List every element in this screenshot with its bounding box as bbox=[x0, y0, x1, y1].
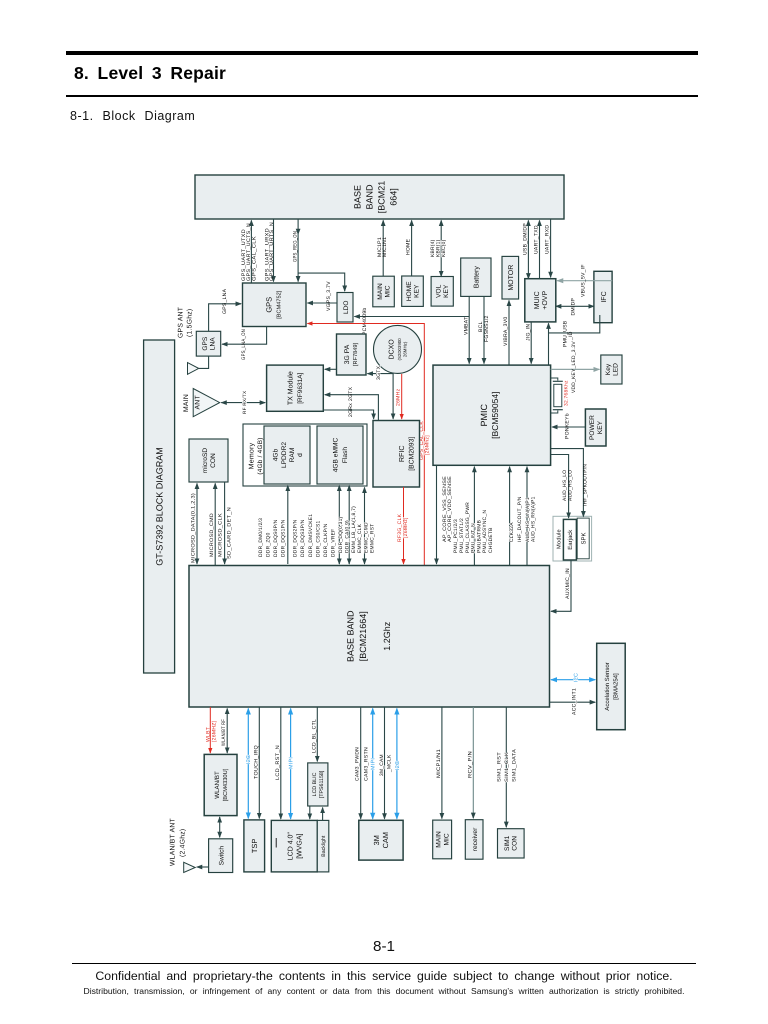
svg-text:PMU_ADSYNC_N: PMU_ADSYNC_N bbox=[482, 510, 488, 553]
subheading 8-1. Block Diagram bbox=[70, 109, 195, 123]
svg-text:JIG_IN: JIG_IN bbox=[525, 324, 531, 341]
svg-text:PCM4009b: PCM4009b bbox=[362, 308, 368, 335]
svg-text:[26Mhz]: [26Mhz] bbox=[425, 435, 431, 455]
svg-text:WLAN/BT: WLAN/BT bbox=[214, 771, 221, 799]
svg-text:RFIC: RFIC bbox=[397, 445, 406, 462]
svg-text:Key: Key bbox=[605, 363, 612, 375]
block GPS LNA bbox=[196, 331, 220, 356]
wire PCM4009b (LDO input from VBAT) bbox=[354, 316, 469, 318]
wire MICROSD_CMD/CLK bbox=[214, 483, 216, 565]
wire GPS_REG_ON bbox=[297, 219, 299, 281]
wire LDO enable branch bbox=[298, 273, 345, 291]
svg-text:Memory: Memory bbox=[249, 442, 256, 469]
svg-text:DDR_DQS1P/N: DDR_DQS1P/N bbox=[281, 519, 287, 557]
heading 8. Level 3 Repair bbox=[74, 63, 226, 84]
wire GPS_CAL_CLK 26MHz (red) bbox=[307, 324, 424, 566]
svg-text:Earjack: Earjack bbox=[567, 529, 574, 550]
block RFIC [BCM2093] bbox=[373, 421, 420, 488]
svg-text:(1.5Ghz): (1.5Ghz) bbox=[187, 309, 194, 337]
block receiver bbox=[465, 820, 483, 860]
svg-text:VMBAT: VMBAT bbox=[463, 317, 469, 335]
svg-text:26MHz): 26MHz) bbox=[403, 341, 408, 357]
block Battery bbox=[461, 258, 491, 296]
svg-text:GPS_LNA: GPS_LNA bbox=[222, 288, 228, 314]
svg-text:microSD: microSD bbox=[202, 448, 209, 474]
wire MICP1/N1 bbox=[441, 707, 443, 819]
wire MIPI LCD (blue) bbox=[290, 709, 292, 819]
block MUIC +OVP bbox=[525, 279, 556, 322]
wire UART_TXD bbox=[539, 220, 541, 278]
svg-text:+OVP: +OVP bbox=[542, 291, 549, 310]
svg-text:4Gb: 4Gb bbox=[273, 448, 280, 461]
svg-text:WLAN/BT ANT: WLAN/BT ANT bbox=[170, 818, 177, 866]
svg-text:LPDDR2: LPDDR2 bbox=[281, 442, 288, 468]
svg-text:CAM3_RSTN: CAM3_RSTN bbox=[364, 747, 370, 781]
wire WLAN/BT RF bbox=[226, 709, 228, 753]
svg-text:2GTX: 2GTX bbox=[348, 386, 354, 401]
svg-text:IHF_DACOUT_P/N: IHF_DACOUT_P/N bbox=[517, 496, 523, 542]
svg-text:DDR_ZQ0: DDR_ZQ0 bbox=[266, 532, 272, 557]
wire VBUS_5V_IF (gray) bbox=[557, 280, 612, 282]
svg-text:KEY: KEY bbox=[443, 284, 450, 298]
svg-text:(4Gb / 4GB): (4Gb / 4GB) bbox=[257, 437, 264, 474]
wire RF3G_CLK to baseband (red) bbox=[403, 487, 405, 564]
svg-text:CAM: CAM bbox=[381, 832, 390, 848]
wire RCV_P/N bbox=[472, 707, 474, 818]
block TSP bbox=[244, 820, 265, 872]
wire WLAN antenna bbox=[197, 866, 209, 868]
block 3M CAM bbox=[359, 820, 403, 860]
wire SD_CARD_DET_N bbox=[224, 482, 226, 564]
block MAIN MIC (top) bbox=[373, 276, 395, 307]
svg-text:AP_CORE_VDD_SENSE: AP_CORE_VDD_SENSE bbox=[447, 475, 453, 542]
svg-text:LCD 4.0″: LCD 4.0″ bbox=[288, 832, 295, 861]
svg-text:4GB eMMC: 4GB eMMC bbox=[333, 438, 340, 473]
svg-text:VDD_KEY_LED_3.3V: VDD_KEY_LED_3.3V bbox=[571, 341, 577, 393]
svg-text:MICP1/N1: MICP1/N1 bbox=[436, 749, 442, 778]
wire IHF_SPKOUTP/N bbox=[551, 449, 584, 517]
wire KBR/KBC bbox=[440, 220, 442, 276]
svg-text:GPS_REG_ON: GPS_REG_ON bbox=[292, 231, 298, 262]
footer distribution line bbox=[0, 986, 768, 996]
svg-text:SD_CARD_DET_N: SD_CARD_DET_N bbox=[227, 507, 233, 559]
wire WLAN/BT to Switch bbox=[219, 817, 221, 837]
svg-text:ANT: ANT bbox=[195, 395, 202, 409]
wire BCL/FGSNS1/2 bbox=[483, 296, 485, 363]
svg-text:PMIC: PMIC bbox=[479, 403, 489, 426]
block LDO bbox=[337, 293, 353, 323]
wire DCXO 26MHz to RFIC (red) bbox=[401, 374, 403, 419]
svg-text:AP_CORE_VSS_SENSE: AP_CORE_VSS_SENSE bbox=[442, 475, 448, 542]
block 3G PA [RF7849] bbox=[337, 334, 367, 375]
block Key LED bbox=[601, 355, 622, 384]
svg-text:DDR_VREF: DDR_VREF bbox=[331, 529, 337, 557]
wire BLIC to LCD bbox=[309, 806, 311, 819]
wire 3GTX branch to 3G PA bbox=[367, 373, 393, 375]
svg-text:receiver: receiver bbox=[472, 827, 479, 851]
svg-text:GPS ANT: GPS ANT bbox=[178, 307, 185, 338]
wire JIG_IN bbox=[530, 322, 532, 364]
svg-text:LDO: LDO bbox=[343, 300, 350, 314]
svg-text:BASE BAND: BASE BAND bbox=[346, 610, 356, 662]
svg-text:3GTX: 3GTX bbox=[376, 365, 382, 380]
wire GPS_UART_URXD bbox=[273, 219, 275, 281]
wire Backlight to BLIC bbox=[322, 808, 324, 821]
label dash before LCD title bbox=[275, 838, 277, 848]
svg-text:[TPS61158]: [TPS61158] bbox=[319, 770, 325, 798]
svg-text:IFC: IFC bbox=[601, 291, 608, 302]
wire PMU_USB_ID bbox=[548, 323, 550, 365]
svg-text:MIC: MIC bbox=[385, 285, 392, 297]
block VOL KEY bbox=[431, 277, 453, 307]
svg-text:CON: CON bbox=[210, 453, 217, 468]
svg-text:Module: Module bbox=[555, 529, 562, 549]
wire PONKEYb bbox=[552, 426, 585, 428]
svg-text:[BCM2093]: [BCM2093] bbox=[409, 437, 416, 471]
block Memory (4Gb / 4GB) outer bbox=[243, 424, 367, 486]
svg-text:MIC: MIC bbox=[443, 833, 450, 845]
svg-text:3M_CAM: 3M_CAM bbox=[379, 754, 385, 776]
svg-text:DDR_DQS0P/N: DDR_DQS0P/N bbox=[273, 519, 279, 557]
wire eMMC data bbox=[338, 485, 340, 564]
wire 2GTX TX to RFIC bbox=[323, 410, 373, 419]
block HOME KEY bbox=[402, 276, 424, 306]
svg-text:Battery: Battery bbox=[474, 266, 481, 289]
svg-text:RAM: RAM bbox=[289, 448, 296, 463]
svg-text:KEY: KEY bbox=[414, 284, 421, 298]
svg-text:MIC1N1: MIC1N1 bbox=[382, 237, 388, 257]
wire AUD_HS bbox=[526, 467, 528, 566]
svg-text:DDR_DQ(0,31): DDR_DQ(0,31) bbox=[338, 516, 344, 553]
svg-text:BAND: BAND bbox=[365, 184, 375, 210]
svg-text:RCV_P/N: RCV_P/N bbox=[467, 751, 473, 778]
svg-text:AUD_HS_RN(A)P1: AUD_HS_RN(A)P1 bbox=[531, 496, 537, 542]
block POWER KEY bbox=[585, 409, 606, 446]
wire eMMC addr bbox=[348, 485, 350, 564]
wire MICROSD_DATA(0,1,2,3) bbox=[196, 483, 198, 564]
svg-text:TX Module: TX Module bbox=[287, 371, 295, 405]
svg-text:DM/DP: DM/DP bbox=[571, 297, 577, 315]
block LCD 4.0 WVGA bbox=[271, 820, 317, 872]
svg-text:Switch: Switch bbox=[218, 846, 225, 866]
svg-text:MAIN: MAIN bbox=[377, 283, 384, 300]
svg-text:DDR_DQS3P/N: DDR_DQS3P/N bbox=[300, 519, 306, 557]
wire AUD_HS_LO bbox=[551, 455, 569, 518]
svg-text:RF RX/TX: RF RX/TX bbox=[242, 390, 247, 414]
wire AUXMIC_IN bbox=[551, 560, 571, 611]
wire DDR bus bbox=[287, 485, 289, 564]
block WLAN/BT [BCM4330U] bbox=[204, 754, 237, 815]
antenna GPS ANT (1.5GHz) bbox=[188, 363, 199, 375]
wire UART_RXD bbox=[550, 219, 552, 277]
svg-text:[BCM59054]: [BCM59054] bbox=[490, 392, 500, 439]
block LCD BLIC [TPS61158] bbox=[308, 763, 328, 806]
svg-text:AUXMIC_IN: AUXMIC_IN bbox=[565, 568, 571, 599]
wire GPS antenna feed bbox=[199, 356, 209, 368]
wire GPS_LNA_ON bbox=[222, 327, 267, 345]
wire HOME bbox=[411, 220, 413, 276]
wire eMMC ctrl bbox=[364, 487, 366, 564]
block MOTOR bbox=[502, 256, 519, 299]
wire DM/DP bbox=[556, 305, 594, 307]
svg-text:HOME: HOME bbox=[406, 281, 413, 301]
svg-text:VOL: VOL bbox=[436, 284, 443, 298]
svg-text:MIPI: MIPI bbox=[371, 758, 377, 770]
svg-text:EMMC_CMD: EMMC_CMD bbox=[363, 522, 369, 553]
svg-text:I2C: I2C bbox=[395, 761, 401, 770]
svg-text:2GRx: 2GRx bbox=[348, 403, 354, 417]
svg-text:d: d bbox=[297, 453, 304, 457]
svg-text:DDR_DMSVCKE1: DDR_DMSVCKE1 bbox=[308, 514, 314, 557]
svg-text:SPK: SPK bbox=[581, 532, 588, 544]
block microSD CON bbox=[189, 439, 228, 482]
svg-text:[BMA254]: [BMA254] bbox=[613, 673, 620, 700]
antenna WLAN/BT ANT (2.4GHz) bbox=[184, 862, 196, 872]
header thin rule bbox=[66, 95, 698, 97]
svg-text:MIPI: MIPI bbox=[288, 757, 294, 769]
svg-text:UART_TXD: UART_TXD bbox=[534, 225, 540, 254]
crystal 32.768kHz bbox=[551, 378, 563, 413]
wire LCD_RST_N bbox=[280, 707, 282, 819]
svg-text:AUD_HS_LO: AUD_HS_LO bbox=[568, 470, 574, 501]
svg-text:MICROSD_DATA(0,1,2,3): MICROSD_DATA(0,1,2,3) bbox=[191, 493, 197, 563]
wire ACC_INT1 bbox=[550, 701, 596, 703]
wire LCD_BL_CTL bbox=[316, 707, 318, 761]
svg-text:26MHz: 26MHz bbox=[396, 388, 402, 406]
svg-text:VIBRA_3V0: VIBRA_3V0 bbox=[503, 317, 509, 346]
svg-text:[RF7849]: [RF7849] bbox=[352, 343, 359, 366]
svg-text:I2C: I2C bbox=[246, 755, 252, 764]
wire VIBRA_3V0 bbox=[508, 300, 510, 365]
svg-text:3G PA: 3G PA bbox=[344, 344, 351, 364]
svg-text:DDR_CLKP/N: DDR_CLKP/N bbox=[323, 523, 329, 557]
wire 3G PA to TX module bbox=[325, 368, 337, 370]
wire PMU control group bbox=[473, 467, 475, 566]
svg-text:SIM1_CLK: SIM1_CLK bbox=[504, 751, 510, 782]
block Backlight bbox=[317, 820, 329, 872]
wire VDD_KEY_LED (gray) bbox=[551, 368, 600, 370]
svg-text:CLK32A: CLK32A bbox=[509, 522, 515, 542]
svg-text:SIM1_RST: SIM1_RST bbox=[497, 752, 503, 782]
svg-text:(2.4Ghz): (2.4Ghz) bbox=[180, 829, 187, 857]
block Switch bbox=[209, 839, 233, 873]
svg-text:_ID: _ID bbox=[568, 331, 574, 341]
svg-text:GPS_LNA_ON: GPS_LNA_ON bbox=[241, 329, 247, 360]
svg-text:KBC(0): KBC(0) bbox=[441, 239, 447, 257]
wire RF RX/TX bbox=[221, 402, 265, 404]
svg-text:MAIN: MAIN bbox=[436, 831, 443, 848]
svg-text:3M: 3M bbox=[372, 835, 381, 845]
svg-text:GPS_UART_URTS_N: GPS_UART_URTS_N bbox=[269, 222, 275, 281]
svg-text:PMU_INT_N: PMU_INT_N bbox=[471, 523, 477, 553]
wire VGPS_3.7V bbox=[307, 302, 337, 304]
svg-text:_MCLK: _MCLK bbox=[387, 754, 393, 773]
svg-text:GPS: GPS bbox=[202, 336, 209, 351]
block Earjack bbox=[563, 519, 576, 560]
svg-text:SIM1_DATA: SIM1_DATA bbox=[512, 748, 518, 782]
block IFC bbox=[594, 271, 612, 322]
svg-text:EMMC_CLK: EMMC_CLK bbox=[357, 523, 363, 553]
wire I2C CAM (blue) bbox=[396, 709, 398, 819]
svg-text:664]: 664] bbox=[389, 188, 399, 206]
svg-text:[BCM21: [BCM21 bbox=[377, 181, 387, 214]
footer rule bbox=[72, 963, 696, 964]
block BASE BAND [BCM21664] 1.2Ghz bbox=[189, 566, 550, 708]
svg-text:POWER: POWER bbox=[589, 415, 596, 440]
svg-text:PMU_STAT1/2: PMU_STAT1/2 bbox=[459, 518, 465, 553]
antenna MAIN ANT bbox=[193, 389, 220, 417]
block TX Module [RF9631A] bbox=[267, 365, 324, 411]
svg-text:SIM1: SIM1 bbox=[504, 835, 511, 851]
wire I2C accel (blue) bbox=[551, 679, 595, 681]
wire WLBT 26MHz (red) bbox=[209, 707, 211, 753]
wire PMU_USB_ID branch to IFC bbox=[549, 315, 600, 333]
svg-text:PONKEYb: PONKEYb bbox=[565, 413, 571, 439]
svg-text:MOTOR: MOTOR bbox=[508, 265, 515, 291]
svg-text:TOUCH_IRQ: TOUCH_IRQ bbox=[253, 745, 259, 779]
block SPK bbox=[577, 518, 589, 559]
block Module (Earjack/SPK) bbox=[553, 516, 592, 561]
svg-text:[26MHz]: [26MHz] bbox=[403, 517, 409, 538]
wire CAM3_PWDN/RSTN bbox=[360, 707, 362, 819]
svg-text:[BCM4752]: [BCM4752] bbox=[276, 290, 283, 318]
svg-text:PMU_PC1/2/3: PMU_PC1/2/3 bbox=[453, 519, 459, 553]
wire TOUCH_IRQ bbox=[258, 707, 260, 818]
block 4Gb LPDDR2 RAM bbox=[264, 426, 310, 484]
svg-text:BASE: BASE bbox=[353, 185, 363, 209]
svg-text:DCXO: DCXO bbox=[389, 339, 396, 360]
svg-text:MUIC: MUIC bbox=[534, 291, 541, 309]
svg-text:[RF9631A]: [RF9631A] bbox=[297, 372, 304, 403]
page number 8-1 bbox=[0, 938, 768, 955]
wire DCXO to RFIC bbox=[392, 373, 394, 419]
svg-text:LNA: LNA bbox=[209, 337, 216, 350]
svg-text:KBR(4): KBR(4) bbox=[430, 239, 436, 257]
svg-text:[WVGA]: [WVGA] bbox=[296, 833, 304, 858]
svg-text:GPS_CAL_CLK: GPS_CAL_CLK bbox=[251, 236, 257, 281]
svg-text:LED: LED bbox=[613, 363, 620, 376]
svg-text:Backlight: Backlight bbox=[321, 835, 327, 857]
svg-text:MICROSD_CMD: MICROSD_CMD bbox=[209, 513, 215, 557]
block 4GB eMMC Flash bbox=[317, 426, 363, 484]
svg-text:AUD_HS_LN(A)P1: AUD_HS_LN(A)P1 bbox=[525, 497, 531, 542]
svg-text:DDR_CS0/CS1: DDR_CS0/CS1 bbox=[315, 521, 321, 557]
wire USB_DM/DP bbox=[527, 220, 529, 278]
svg-text:VBUS_5V_IF: VBUS_5V_IF bbox=[581, 264, 587, 297]
svg-text:Flash: Flash bbox=[342, 447, 349, 463]
svg-text:DDR_DQS2P/N: DDR_DQS2P/N bbox=[293, 519, 299, 557]
svg-text:32.768Khz: 32.768Khz bbox=[564, 380, 570, 406]
svg-text:AUD_HS_LO: AUD_HS_LO bbox=[562, 470, 568, 501]
svg-text:GT-S7392 BLOCK DIAGRAM: GT-S7392 BLOCK DIAGRAM bbox=[155, 447, 165, 566]
svg-text:PMU_CLASSG_PWR: PMU_CLASSG_PWR bbox=[465, 502, 471, 553]
oscillator DCXO (S2D03900 26MHz) bbox=[374, 325, 422, 373]
wire AP_CORE_VSS/VDD_SENSE bbox=[436, 465, 438, 564]
wire GPS_LNA bbox=[209, 304, 242, 332]
svg-text:[26MHZ]: [26MHZ] bbox=[212, 720, 218, 742]
block PMIC [BCM59054] bbox=[433, 365, 551, 465]
svg-text:[BCM21664]: [BCM21664] bbox=[358, 611, 368, 661]
svg-text:[BCM4330U]: [BCM4330U] bbox=[222, 768, 229, 801]
svg-text:DDR_CA(0,9): DDR_CA(0,9) bbox=[345, 520, 351, 553]
svg-text:ACC_INT1: ACC_INT1 bbox=[572, 688, 578, 715]
svg-text:MAIN: MAIN bbox=[183, 394, 190, 412]
wire CLK32A/IHF_DACOUT bbox=[509, 467, 511, 566]
svg-text:LCD_BL_CTL: LCD_BL_CTL bbox=[311, 719, 317, 753]
svg-text:EMMC_RST: EMMC_RST bbox=[369, 524, 375, 553]
block GT-S7392 BLOCK DIAGRAM banner bbox=[144, 340, 175, 673]
block BASE BAND [BCM21 664] (RF companion) bbox=[195, 175, 564, 219]
block MAIN MIC (bottom) bbox=[433, 820, 452, 859]
wire VMBAT bbox=[468, 296, 470, 363]
svg-text:DDR_DM0/1/2/3: DDR_DM0/1/2/3 bbox=[258, 518, 264, 557]
wire GPS_UART_UTXD bbox=[250, 220, 252, 283]
svg-text:PMUBATRMB: PMUBATRMB bbox=[476, 520, 482, 553]
svg-text:CHGDETB: CHGDETB bbox=[488, 527, 494, 553]
svg-text:I2C: I2C bbox=[574, 673, 580, 682]
svg-text:HOME: HOME bbox=[406, 238, 412, 255]
svg-text:MICROSD_CLK: MICROSD_CLK bbox=[217, 512, 223, 557]
svg-text:WLAN/BT RF: WLAN/BT RF bbox=[221, 719, 227, 746]
svg-text:EMM_LB_LA(1,8,7): EMM_LB_LA(1,8,7) bbox=[351, 506, 357, 553]
svg-text:FGSNS1/2: FGSNS1/2 bbox=[484, 315, 490, 342]
svg-text:CAM3_PWDN: CAM3_PWDN bbox=[355, 747, 361, 781]
svg-text:(S2D03900: (S2D03900 bbox=[397, 338, 402, 361]
svg-text:KBR(1): KBR(1) bbox=[435, 239, 441, 257]
svg-text:KEY: KEY bbox=[597, 420, 604, 434]
svg-text:UART_RXD: UART_RXD bbox=[545, 225, 551, 254]
svg-text:USB_DM/DP: USB_DM/DP bbox=[522, 223, 528, 255]
wire 3M_CAM_MCLK bbox=[384, 707, 386, 819]
svg-text:VGPS_3.7V: VGPS_3.7V bbox=[326, 281, 332, 311]
svg-text:Accelation Sensor: Accelation Sensor bbox=[604, 662, 611, 710]
svg-text:GPS: GPS bbox=[265, 297, 274, 313]
svg-text:CON: CON bbox=[512, 836, 519, 851]
svg-text:TSP: TSP bbox=[250, 839, 259, 853]
block GPS [BCM4752] bbox=[243, 283, 307, 327]
svg-text:IHF_SPKOUTP/N: IHF_SPKOUTP/N bbox=[582, 464, 588, 506]
wire I2C TSP (blue) bbox=[247, 709, 249, 819]
wire SIM1 bus bbox=[505, 707, 507, 827]
block Accelation Sensor [BMA254] bbox=[597, 643, 626, 729]
wire 2GRx RFIC to TX bbox=[325, 395, 379, 421]
header thick rule bbox=[66, 51, 698, 55]
svg-text:1.2Ghz: 1.2Ghz bbox=[382, 621, 392, 651]
svg-text:LCD_RST_N: LCD_RST_N bbox=[275, 745, 281, 780]
block SIM1 CON bbox=[498, 829, 525, 858]
footer confidential line bbox=[0, 969, 768, 983]
wire MIPI CAM (blue) bbox=[372, 709, 374, 819]
wire MIC1P1/MIC1N1 bbox=[382, 220, 384, 276]
svg-text:LCD BLIC: LCD BLIC bbox=[312, 772, 318, 796]
